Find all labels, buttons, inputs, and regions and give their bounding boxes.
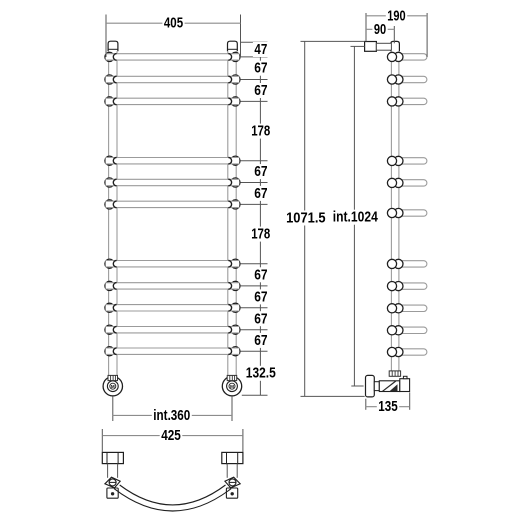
side rung 11 pill [398,349,427,355]
dimension 135 text [377,399,399,414]
svg-text:405: 405 [164,15,183,32]
front rung 11 tube [106,348,240,354]
dimension 190 line [366,15,427,17]
front rung 6 tube end caps [113,201,116,208]
side rung 8 ball joint [394,282,403,291]
front rung 4 tube end caps [113,157,116,164]
side rung 5 ball joint [394,178,403,187]
side rung 8 pill [398,283,427,289]
svg-text:M: M [111,384,115,389]
front view left vertical rail [108,51,110,376]
dimension int.1024 vertical line [353,46,355,386]
side rung 6 pill [398,210,427,216]
svg-text:132.5: 132.5 [246,365,276,382]
svg-text:178: 178 [251,123,270,140]
front rung 3 ball joints [105,97,114,106]
front rung 5 tube [106,179,240,185]
dimension 1071.5 vertical line [304,41,306,396]
svg-text:67: 67 [254,310,267,327]
bottom view right lower plate [226,488,237,498]
dimension 90 text [372,22,387,37]
front rung 5 ball joints [105,178,114,187]
bottom view left bracket diamond [105,477,120,488]
front rung 1 ball joints [105,52,114,61]
front rung 11 ball joints [105,347,114,356]
side valve nut on rail [389,371,400,376]
svg-text:67: 67 [254,288,267,305]
svg-text:190: 190 [387,7,405,24]
dimension 190 text [386,8,407,23]
svg-text:67: 67 [254,185,267,202]
side view rail [390,51,392,372]
front rung 2 ball joints [105,75,114,84]
dimension int.360 line [113,414,232,416]
dimension 405 extension lines [105,15,107,58]
right dimension chain vertical line [259,42,261,395]
svg-text:1071.5: 1071.5 [286,210,326,227]
front view left top cap [108,41,118,51]
side rung 7 pill [398,261,427,267]
side rung 7 ball joint [394,259,403,268]
chain dimension texts [253,42,269,57]
side rung 3 ball joint [394,97,403,106]
front rung 10 ball joints [105,325,114,334]
dimension int.1024 bottom tick [351,385,363,387]
front left valve nut [108,375,118,380]
dimension 425 line [102,435,243,437]
front rung 1 tube end caps [113,54,116,61]
front rung 4 tube [106,158,240,164]
svg-text:67: 67 [254,332,267,349]
side valve body [379,381,400,392]
svg-text:90: 90 [374,21,386,38]
front rung 9 tube end caps [113,305,116,312]
svg-text:178: 178 [251,226,270,243]
dimension 90 line [366,28,394,30]
front rung 8 tube [106,283,240,289]
side view top cap [391,41,400,51]
svg-text:67: 67 [254,60,267,77]
svg-text:67: 67 [254,82,267,99]
svg-text:425: 425 [161,427,181,444]
dimension int.360 text [152,408,192,423]
side rung 9 pill [398,305,427,311]
svg-text:67: 67 [254,163,267,180]
side valve knob [366,375,375,397]
dimension 1071.5 top tick [301,40,365,42]
dimension int.360 extension lines [112,396,114,421]
dimension 1071.5 bottom tick [301,395,365,397]
front rung 3 tube [106,98,240,104]
bottom view left wall block [102,452,123,463]
bottom view left stem [107,464,109,478]
front rung 6 ball joints [105,200,114,209]
dimension 425 text [160,428,183,443]
dimension 135 extensions [365,399,367,410]
side rung 5 pill [398,180,427,186]
dimension 405 line [106,22,241,24]
side view bracket arm [376,43,391,50]
bottom view right bracket diamond [225,477,240,488]
side rung 3 pill [398,98,427,104]
front rung 9 tube [106,305,240,311]
dimension 190 extensions [365,13,367,42]
front rung 9 ball joints [105,303,114,312]
front rung 7 tube end caps [113,260,116,267]
front right valve circles [222,377,241,396]
side view wall bracket block [365,42,377,52]
front right valve nut [227,375,237,380]
dimension int.1024 top tick [351,45,365,47]
svg-text:135: 135 [378,398,397,415]
svg-text:M: M [230,384,234,389]
side valve small connector [374,382,379,391]
side rung 2 ball joint [394,75,403,84]
bottom view left lower plate [107,488,118,498]
front rung 11 tube end caps [113,348,116,355]
side rung 4 pill [398,158,427,164]
svg-text:int.1024: int.1024 [333,209,379,226]
side rung 9 ball joint [394,304,403,313]
side rung 1 pill [398,54,427,60]
front rung 2 tube end caps [113,76,116,83]
front rung 3 tube end caps [113,98,116,105]
front rung 7 tube [106,261,240,267]
svg-text:int.360: int.360 [153,407,190,424]
front rung 10 tube end caps [113,326,116,333]
front view right top cap [228,41,238,51]
side rung 6 ball joint [394,208,403,217]
front rung 2 tube [106,76,240,82]
bottom view right stem [226,464,228,478]
dimension int.1024 text [331,210,379,225]
front left valve circles [103,377,122,396]
bottom view curved tube inner arc [120,485,226,505]
bottom view right wall block [222,452,243,463]
front rung 4 ball joints [105,156,114,165]
svg-text:67: 67 [254,266,267,283]
dimension 425 extensions [101,429,103,452]
side rung 1 ball joint [394,52,403,61]
chain leader ticks [240,41,267,43]
front rung 7 ball joints [105,259,114,268]
dimension 135 line [366,406,410,408]
bottom view curved tube outer arc [114,489,231,511]
dimension 405 text [162,16,184,31]
front rung 8 tube end caps [113,283,116,290]
front rung 6 tube [106,201,240,207]
front rung 1 tube [106,54,240,60]
front rung 10 tube [106,327,240,333]
side rung 4 ball joint [394,156,403,165]
front rung 5 tube end caps [113,179,116,186]
side rung 10 pill [398,327,427,333]
front rung 8 ball joints [105,281,114,290]
svg-text:47: 47 [254,41,267,58]
side rung 11 ball joint [394,347,403,356]
dimension 90 extension [393,26,395,43]
dimension 1071.5 text [285,211,328,226]
side rung 2 pill [398,76,427,82]
side valve right part [400,379,410,392]
side rung 10 ball joint [394,326,403,335]
front view right vertical rail [227,51,229,376]
